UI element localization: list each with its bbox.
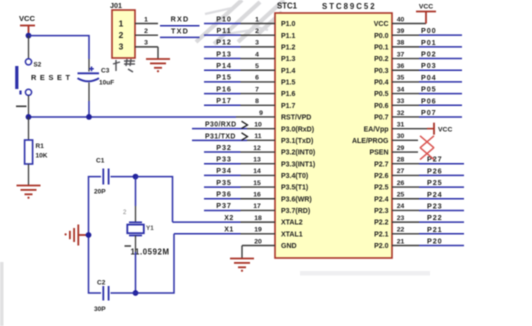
pin 12 stub	[241, 151, 276, 153]
svg-text:P1.1: P1.1	[281, 33, 296, 40]
capacitor C3 top lead	[88, 59, 90, 72]
pin 5 stub	[241, 69, 276, 71]
svg-text:14: 14	[253, 168, 261, 175]
wire net P02 from pin 37	[419, 58, 462, 60]
svg-text:P04: P04	[421, 73, 437, 82]
svg-text:ALE/PROG: ALE/PROG	[352, 138, 389, 145]
pin 28 stub	[392, 163, 419, 165]
wire pin 31 to VCC	[427, 128, 434, 130]
svg-text:10uF: 10uF	[99, 80, 114, 87]
svg-text:30: 30	[397, 133, 405, 140]
pin 27 stub	[392, 174, 419, 176]
svg-text:P26: P26	[427, 166, 443, 175]
wire net P06 from pin 33	[419, 104, 462, 106]
svg-text:X1: X1	[224, 227, 234, 234]
wire net X2 to pin 18	[173, 221, 241, 223]
svg-text:P30/RXD: P30/RXD	[205, 122, 237, 129]
svg-text:1: 1	[119, 18, 124, 28]
wire net P24 from pin 25	[419, 198, 464, 200]
svg-text:STC1: STC1	[277, 2, 298, 11]
svg-text:P0.2: P0.2	[374, 56, 389, 63]
svg-text:P3.7(RD): P3.7(RD)	[281, 208, 310, 215]
pin 38 stub	[392, 46, 419, 48]
svg-text:RST/VPD: RST/VPD	[281, 115, 311, 122]
svg-text:P13: P13	[216, 49, 232, 58]
pin 40 stub	[392, 23, 426, 25]
resistor R1 lead bottom	[28, 164, 30, 185]
wire crystal node down	[135, 177, 137, 206]
wire net X1 to pin 19	[174, 233, 241, 235]
svg-text:S2: S2	[34, 62, 42, 69]
capacitor C2	[103, 286, 108, 301]
svg-text:J01: J01	[110, 1, 122, 10]
wire net P36 to pin 16	[204, 198, 241, 200]
svg-text:Y1: Y1	[146, 225, 154, 232]
node crystal top	[133, 174, 139, 180]
wire left rail	[89, 177, 102, 293]
pin 35 stub	[392, 81, 419, 83]
svg-text:31: 31	[397, 121, 405, 128]
svg-text:1: 1	[255, 16, 259, 23]
svg-text:1: 1	[144, 16, 148, 23]
svg-text:P0.4: P0.4	[374, 80, 389, 87]
wire C1 to crystal node	[111, 176, 136, 178]
pin 24 stub	[392, 209, 419, 211]
ground (MCU pin 20)	[230, 259, 254, 268]
svg-text:9: 9	[259, 110, 263, 117]
svg-text:13: 13	[253, 157, 261, 164]
svg-text:2: 2	[119, 30, 124, 40]
pin 26 stub	[392, 186, 419, 188]
pin 17 stub	[241, 209, 276, 211]
svg-text:P3.5(T1): P3.5(T1)	[281, 185, 308, 192]
svg-text:P14: P14	[216, 61, 232, 70]
wire net P16 to pin 7	[204, 93, 241, 95]
wire net P32 to pin 12	[204, 151, 241, 153]
svg-text:21: 21	[397, 238, 405, 245]
connector pin 1 stub	[135, 23, 158, 25]
svg-text:P2.3: P2.3	[374, 208, 389, 215]
svg-text:3: 3	[144, 40, 148, 47]
wire net P33 to pin 13	[204, 163, 241, 165]
pin 37 stub	[392, 58, 419, 60]
pin 1 stub	[241, 23, 276, 25]
svg-text:36: 36	[397, 63, 405, 70]
pin 18 stub	[241, 221, 276, 223]
svg-text:P3.6(WR): P3.6(WR)	[281, 196, 312, 203]
svg-text:P3.1(TxD): P3.1(TxD)	[281, 138, 313, 145]
pin 20 stub	[242, 245, 275, 247]
svg-text:VCC: VCC	[419, 4, 433, 11]
pin 6 stub	[241, 81, 276, 83]
wire port P30/RXD to pin 10	[192, 128, 247, 130]
svg-text:20: 20	[254, 238, 262, 245]
svg-text:39: 39	[397, 28, 405, 35]
svg-text:P01: P01	[421, 38, 437, 47]
node left rail / ground junction	[86, 232, 92, 238]
svg-text:P16: P16	[216, 84, 232, 93]
node crystal bottom	[133, 290, 139, 296]
wire connector pin 3 to ground	[157, 47, 159, 59]
MCU U1 STC89C52 body	[275, 13, 392, 258]
svg-text:P00: P00	[421, 26, 437, 35]
svg-text:P1.0: P1.0	[281, 21, 296, 28]
connector J01 body	[112, 10, 135, 58]
wire C2 to crystal bottom node	[111, 292, 136, 294]
wire net P21 from pin 22	[419, 233, 464, 235]
svg-text:TXD: TXD	[171, 26, 189, 35]
wire net P07 from pin 32	[419, 116, 462, 118]
svg-text:P20: P20	[427, 237, 443, 246]
pin 2 stub	[241, 34, 276, 36]
svg-text:P0.3: P0.3	[374, 68, 389, 75]
svg-text:STC89C52: STC89C52	[322, 2, 377, 11]
svg-text:P0.0: P0.0	[374, 33, 389, 40]
svg-text:P1.5: P1.5	[281, 80, 296, 87]
svg-text:VCC: VCC	[374, 21, 389, 28]
svg-text:P11: P11	[216, 26, 231, 35]
svg-text:P3.2(INT0): P3.2(INT0)	[281, 150, 315, 157]
svg-text:P2.0: P2.0	[374, 243, 389, 250]
svg-text:P03: P03	[421, 61, 437, 70]
svg-text:P06: P06	[421, 96, 437, 105]
wire net P12 to pin 3	[204, 46, 241, 48]
svg-text:C2: C2	[97, 280, 106, 287]
svg-text:6: 6	[255, 75, 259, 82]
wire net P10 to pin 1	[204, 23, 241, 25]
pin 3 stub	[241, 46, 276, 48]
svg-text:38: 38	[397, 40, 405, 47]
pin 8 stub	[241, 104, 276, 106]
svg-text:P2.2: P2.2	[374, 220, 389, 227]
svg-text:C3: C3	[101, 68, 110, 75]
crystal Y1	[127, 222, 144, 235]
crystal Y1 top lead	[135, 206, 137, 222]
svg-text:8: 8	[255, 98, 259, 105]
pin 23 stub	[392, 221, 419, 223]
svg-text:2: 2	[144, 28, 148, 35]
svg-text:22: 22	[397, 227, 405, 234]
svg-text:P21: P21	[427, 225, 443, 234]
svg-text:11: 11	[254, 133, 261, 140]
wire net RXD from connector pin 1	[160, 25, 200, 27]
wire C3 to RST node	[88, 101, 90, 117]
svg-text:7: 7	[255, 86, 259, 93]
wire net P05 from pin 34	[419, 93, 462, 95]
svg-text:P31/TXD: P31/TXD	[205, 133, 236, 140]
wire net P26 from pin 27	[419, 174, 464, 176]
pin 34 stub	[392, 93, 419, 95]
no-connect X (pin 29)	[420, 148, 434, 160]
wire net P15 to pin 6	[204, 81, 241, 83]
svg-text:RXD: RXD	[171, 15, 190, 24]
pushbutton S2 (reset)	[17, 59, 32, 96]
wire net P23 from pin 24	[419, 209, 464, 211]
capacitor C3 bottom lead	[88, 83, 90, 102]
svg-text:P34: P34	[216, 166, 232, 175]
svg-text:27: 27	[397, 168, 405, 175]
svg-text:11.0592M: 11.0592M	[131, 248, 170, 257]
svg-text:R1: R1	[36, 143, 45, 150]
wire net P25 from pin 26	[419, 186, 464, 188]
svg-text:RESET: RESET	[31, 73, 74, 82]
svg-text:P02: P02	[421, 50, 437, 59]
pin 16 stub	[241, 198, 276, 200]
pin 7 stub	[241, 93, 276, 95]
svg-text:P12: P12	[216, 38, 232, 47]
svg-text:P3.3(INT1): P3.3(INT1)	[281, 161, 315, 168]
svg-text:25: 25	[397, 192, 405, 199]
svg-text:5: 5	[255, 63, 259, 70]
svg-text:P15: P15	[216, 73, 232, 82]
svg-text:C1: C1	[96, 158, 105, 165]
wire pin20 down to ground	[241, 246, 243, 259]
svg-text:35: 35	[397, 75, 405, 82]
wire net P37 to pin 17	[204, 209, 241, 211]
wire net P13 to pin 4	[204, 58, 241, 60]
wire net P14 to pin 5	[204, 69, 241, 71]
svg-text:33: 33	[397, 98, 405, 105]
resistor R1	[25, 140, 33, 164]
svg-text:12: 12	[253, 145, 261, 152]
svg-text:P23: P23	[427, 201, 443, 210]
svg-text:18: 18	[254, 215, 262, 222]
svg-text:P0.5: P0.5	[374, 91, 389, 98]
pin 19 stub	[241, 233, 276, 235]
wire net P35 to pin 15	[204, 186, 241, 188]
wire crystal node to pin18 riser	[136, 177, 173, 223]
svg-text:P37: P37	[216, 201, 232, 210]
resistor R1 lead top	[28, 117, 30, 140]
svg-text:XTAL1: XTAL1	[281, 231, 303, 238]
svg-text:P25: P25	[427, 178, 443, 187]
power VCC (pin 31)	[433, 123, 435, 135]
svg-text:X2: X2	[224, 215, 234, 222]
wire RST net from reset circuit to pin 9	[29, 116, 236, 118]
port arrow	[242, 121, 248, 128]
svg-text:P1.3: P1.3	[281, 56, 296, 63]
port arrow	[242, 133, 248, 140]
svg-text:P0.7: P0.7	[374, 115, 389, 122]
wire net P22 from pin 23	[419, 221, 464, 223]
svg-text:P07: P07	[421, 108, 437, 117]
wire net P17 to pin 8	[204, 104, 241, 106]
wire net P34 to pin 14	[204, 174, 241, 176]
svg-text:15: 15	[253, 180, 261, 187]
svg-text:P33: P33	[216, 155, 232, 164]
svg-text:30P: 30P	[94, 306, 106, 313]
svg-text:32: 32	[397, 110, 405, 117]
svg-text:P0.1: P0.1	[374, 44, 389, 51]
svg-text:P36: P36	[216, 190, 232, 199]
pin 32 stub	[392, 116, 419, 118]
wire crystal bottom to pin19 riser	[136, 234, 175, 293]
pin 39 stub	[392, 34, 419, 36]
pin 21 stub	[392, 245, 419, 247]
pin 10 stub	[247, 128, 275, 130]
ground (crystal, rotated left)	[70, 225, 89, 246]
svg-text:23: 23	[397, 215, 405, 222]
no-connect X (pin 30)	[420, 136, 434, 148]
watermark faint bar bottom	[300, 271, 430, 276]
wire net P01 from pin 38	[419, 46, 462, 48]
pin 9 stub	[236, 116, 275, 118]
connector pin 2 stub	[135, 34, 158, 36]
pin 33 stub	[392, 104, 419, 106]
ground (connector)	[146, 59, 170, 68]
svg-text:P24: P24	[427, 190, 443, 199]
svg-text:16: 16	[253, 192, 261, 199]
switch bottom lead	[28, 95, 30, 117]
node reset junction	[26, 114, 32, 120]
svg-text:19: 19	[254, 227, 262, 234]
svg-text:P2.6: P2.6	[374, 173, 389, 180]
node C3/RST junction	[86, 114, 92, 120]
pin 31 stub	[392, 128, 427, 130]
svg-text:PSEN: PSEN	[369, 150, 388, 157]
pin 4 stub	[241, 58, 276, 60]
svg-text:P2.7: P2.7	[374, 161, 389, 168]
pin 14 stub	[241, 174, 276, 176]
wire crystal bottom to node	[135, 252, 137, 293]
connector pin 3 stub	[135, 46, 158, 48]
svg-text:P22: P22	[427, 213, 443, 222]
wire net TXD from connector pin 2	[160, 36, 200, 38]
svg-text:P2.4: P2.4	[374, 196, 389, 203]
svg-text:P10: P10	[216, 14, 232, 23]
wire VCC node to switch	[28, 36, 30, 59]
svg-text:XTAL2: XTAL2	[281, 220, 303, 227]
pin 15 stub	[241, 186, 276, 188]
capacitor C1	[103, 169, 108, 185]
svg-text:20P: 20P	[94, 189, 106, 196]
pin 13 stub	[241, 163, 276, 165]
svg-text:VCC: VCC	[438, 127, 452, 134]
svg-text:40: 40	[397, 16, 405, 23]
svg-text:P0.6: P0.6	[374, 103, 389, 110]
svg-text:29: 29	[397, 145, 405, 152]
svg-text:34: 34	[397, 86, 405, 93]
svg-text:P3.0(RxD): P3.0(RxD)	[281, 126, 314, 133]
power VCC (pin 40)	[416, 12, 436, 24]
svg-text:10K: 10K	[36, 153, 48, 160]
svg-text:VCC: VCC	[19, 14, 36, 23]
svg-text:GND: GND	[281, 243, 297, 250]
svg-text:24: 24	[397, 203, 405, 210]
wire port P31/TXD to pin 11	[192, 139, 247, 141]
wire net P11 to pin 2	[204, 34, 241, 36]
svg-text:28: 28	[397, 157, 405, 164]
svg-text:P3.4(T0): P3.4(T0)	[281, 173, 308, 180]
pin 22 stub	[392, 233, 419, 235]
svg-text:10: 10	[254, 121, 262, 128]
svg-text:EA/Vpp: EA/Vpp	[364, 126, 389, 133]
node VCC junction	[26, 33, 32, 39]
svg-text:P1.6: P1.6	[281, 91, 296, 98]
svg-text:4: 4	[255, 51, 259, 58]
svg-text:17: 17	[253, 203, 261, 210]
svg-text:26: 26	[397, 180, 405, 187]
svg-text:2: 2	[255, 28, 259, 35]
svg-text:P2.1: P2.1	[374, 231, 389, 238]
svg-text:37: 37	[397, 51, 405, 58]
svg-text:P1.2: P1.2	[281, 44, 296, 51]
wire net P04 from pin 35	[419, 81, 462, 83]
crystal Y1 bottom lead	[135, 236, 137, 253]
wire net P27 from pin 28	[419, 163, 464, 165]
svg-text:3: 3	[255, 40, 259, 47]
svg-text:P1.7: P1.7	[281, 103, 296, 110]
capacitor C3 (electrolytic)	[78, 67, 100, 82]
wire VCC node to C3	[29, 36, 90, 59]
pin 36 stub	[392, 69, 419, 71]
pin 11 stub	[247, 139, 275, 141]
wire net P20 from pin 21	[419, 245, 464, 247]
svg-text:P05: P05	[421, 85, 437, 94]
wire net P00 from pin 39	[419, 34, 462, 36]
svg-text:P35: P35	[216, 178, 232, 187]
watermark diagonal smudge top	[196, 0, 284, 44]
watermark dark marks under connector	[113, 59, 135, 72]
svg-text:3: 3	[119, 42, 124, 52]
svg-text:P17: P17	[216, 96, 232, 105]
svg-text:P2.5: P2.5	[374, 185, 389, 192]
pin 30 stub	[392, 139, 418, 141]
ground (R1)	[17, 186, 41, 195]
pin 29 stub	[392, 151, 418, 153]
wire net P03 from pin 36	[419, 69, 462, 71]
svg-text:P32: P32	[216, 143, 232, 152]
svg-text:P1.4: P1.4	[281, 68, 296, 75]
pin 25 stub	[392, 198, 419, 200]
